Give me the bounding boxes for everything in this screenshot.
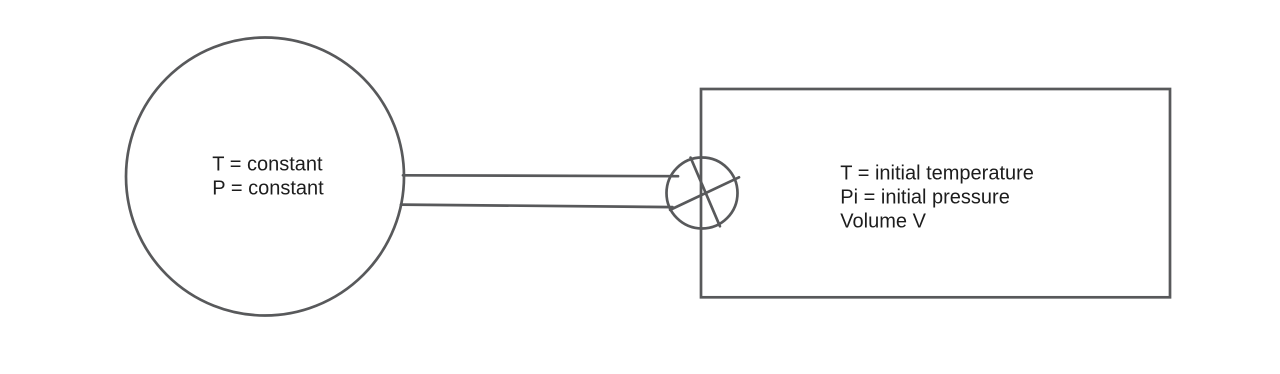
svg-text:T = constant: T = constant — [212, 153, 323, 175]
svg-text:Volume V: Volume V — [840, 211, 926, 233]
svg-text:Pi = initial pressure: Pi = initial pressure — [840, 187, 1010, 209]
svg-text:T = initial temperature: T = initial temperature — [840, 163, 1034, 185]
svg-text:P = constant: P = constant — [212, 177, 324, 199]
